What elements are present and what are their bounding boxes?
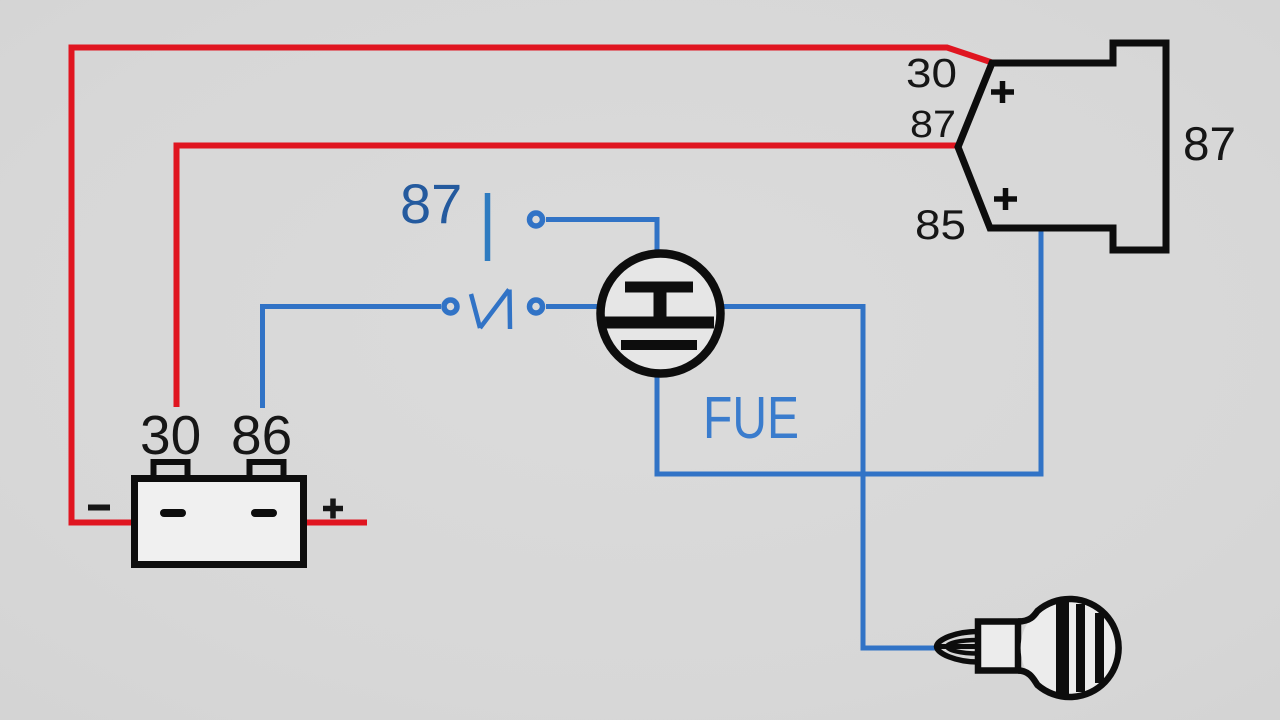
lamp globe and neck [1018,599,1119,697]
ground symbol bottom bar [621,340,697,350]
svg-text:87: 87 [910,104,956,146]
lamp filament bar 3 [1095,613,1104,683]
wire red: battery positive stub [307,520,367,526]
svg-text:87: 87 [400,172,462,235]
ground symbol middle bar [603,317,714,329]
svg-text:85: 85 [915,201,966,248]
lamp base rectangle [978,622,1018,671]
svg-text:FUE: FUE [703,385,799,451]
switch S1 upper throw bar [485,193,491,261]
wire blue: battery 86 terminal up and right to switch left contact [263,307,442,409]
switch S1 upper throw contact circle [530,213,543,226]
svg-text:30: 30 [140,404,201,466]
battery minus mark [88,505,110,511]
svg-text:86: 86 [231,404,292,466]
relay plus mark top [991,81,1014,103]
lamp filament bar 1 [1056,602,1069,694]
wire red: second feed from battery 30 terminal across to relay 87 point [177,146,958,408]
wire blue: switch right contact to ground circle left [546,304,600,309]
wire blue: ground circle bottom down then right to relay 85 riser [657,229,1041,474]
svg-text:87: 87 [1183,117,1236,170]
ground symbol vertical bar [654,287,667,322]
lamp tip outer dome [937,632,979,663]
battery plus mark [323,499,343,519]
lamp filament bar 2 [1076,604,1085,692]
switch S1 right contact circle [530,300,543,313]
relay plus mark bottom [994,188,1017,210]
switch S1 left contact circle [444,300,457,313]
ground symbol top bar [625,282,693,293]
lamp tip inner arc [947,640,978,654]
wire blue: ground circle right across then down to lamp [719,307,936,649]
svg-text:30: 30 [906,50,957,96]
wire blue: upper throw contact right then down to ground circle top [546,220,657,255]
lamp tip contact line [935,644,979,649]
battery cell dash left [164,509,182,517]
ground symbol circle [601,254,721,374]
lamp globe fill [1021,599,1119,697]
switch S1 lever [471,290,510,330]
battery terminal tab right [250,462,284,476]
relay connector outline [958,43,1166,250]
wire red: battery negative up-left, across top to relay pin 30 [72,48,993,523]
battery terminal tab left [154,462,188,476]
battery body [135,479,304,565]
battery cell dash right [255,509,273,517]
